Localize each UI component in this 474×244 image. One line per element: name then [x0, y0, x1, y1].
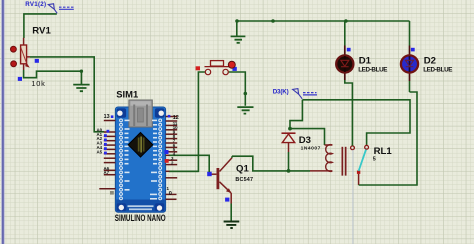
svg-text:0: 0 — [169, 191, 172, 197]
wire: terminal to relay NO contact — [302, 100, 410, 145]
junction (button gnd wire) — [244, 92, 248, 96]
left window edge guide line — [1, 0, 4, 244]
wire: Arduino pin to Q1 base — [169, 155, 209, 172]
wire: pot wiper to Arduino A0 — [30, 57, 104, 132]
wire: Arduino pin to button — [169, 170, 198, 172]
grey pad below VIN stub — [110, 191, 114, 195]
svg-text:RL1: RL1 — [374, 146, 393, 157]
indicator square wiper — [35, 59, 39, 63]
relay armature link guide line — [352, 150, 354, 244]
indicator square D2 — [411, 48, 415, 52]
Arduino SIMULINO NANO board — [115, 89, 165, 213]
wire: D3 anode down to collector wire — [288, 152, 290, 171]
svg-text:D3: D3 — [299, 135, 311, 146]
LED D2 — [401, 21, 418, 92]
LED D1 — [336, 21, 353, 146]
wire: D3 cathode to relay coil top — [290, 129, 325, 145]
indicator square D1 — [347, 48, 351, 52]
left pin labels A0-A7 — [97, 128, 110, 176]
top rail wire — [237, 20, 410, 22]
indicator square pot bottom — [18, 77, 22, 81]
svg-text:BC547: BC547 — [235, 177, 253, 183]
svg-text:D1: D1 — [359, 55, 372, 66]
board pin holes — [119, 119, 162, 201]
ground (pot) — [73, 85, 89, 92]
wire: RV1 terminal to pot top — [24, 14, 57, 38]
relay RL1 — [310, 145, 369, 176]
ground (button) — [237, 107, 253, 114]
wire: Q1 emitter to ground — [230, 204, 232, 221]
svg-text:D3(K): D3(K) — [273, 88, 289, 95]
left pin indicator squares — [104, 130, 109, 155]
USB connector — [129, 100, 152, 127]
svg-text:SIM1: SIM1 — [116, 89, 138, 100]
MCU chip — [128, 133, 153, 158]
svg-text:LED-BLUE: LED-BLUE — [358, 66, 387, 73]
push button — [169, 61, 245, 172]
svg-text:A5: A5 — [97, 149, 103, 154]
junction (orphan) — [271, 19, 275, 23]
terminal D3(K) — [273, 88, 317, 98]
svg-text:10k: 10k — [31, 79, 45, 88]
junction (D3 cathode) — [288, 127, 292, 131]
svg-text:A7: A7 — [104, 170, 110, 175]
indicator square Q1 base — [207, 172, 212, 177]
svg-text:1N4007: 1N4007 — [301, 145, 321, 151]
wire: terminal down to D3 cathode — [290, 100, 302, 129]
junction (D1 tap) — [344, 19, 348, 23]
indicator square Q1 emitter — [225, 198, 229, 202]
svg-text:RV1: RV1 — [32, 25, 51, 36]
indicator squares right pins — [165, 150, 169, 154]
right pin labels — [171, 121, 178, 166]
board silk text marks — [125, 120, 158, 211]
svg-text:RV1(2): RV1(2) — [25, 1, 46, 8]
svg-text:Q1: Q1 — [236, 164, 249, 175]
transistor Q1 — [210, 158, 232, 204]
junction (rail corner) — [235, 19, 239, 23]
diode D3 — [282, 133, 296, 152]
svg-text:5: 5 — [373, 157, 376, 163]
ground (Q1) — [224, 222, 240, 229]
wire: pot bottom to ground — [24, 70, 82, 84]
left pin stubs — [99, 121, 115, 189]
junction — [80, 70, 83, 73]
potentiometer RV1 — [11, 38, 31, 70]
right pin stubs — [166, 117, 178, 200]
svg-text:SIMULINO NANO: SIMULINO NANO — [115, 213, 166, 223]
svg-text:LED-BLUE: LED-BLUE — [423, 66, 452, 73]
svg-text:D2: D2 — [424, 55, 436, 66]
svg-text:13: 13 — [104, 114, 110, 120]
ground (top rail) — [231, 21, 246, 43]
terminal RV1(2) — [25, 1, 74, 13]
wire: Q1 collector to relay coil bottom — [232, 156, 310, 171]
wire: relay common to right rail — [358, 174, 360, 185]
junction (D3 anode) — [287, 169, 291, 173]
